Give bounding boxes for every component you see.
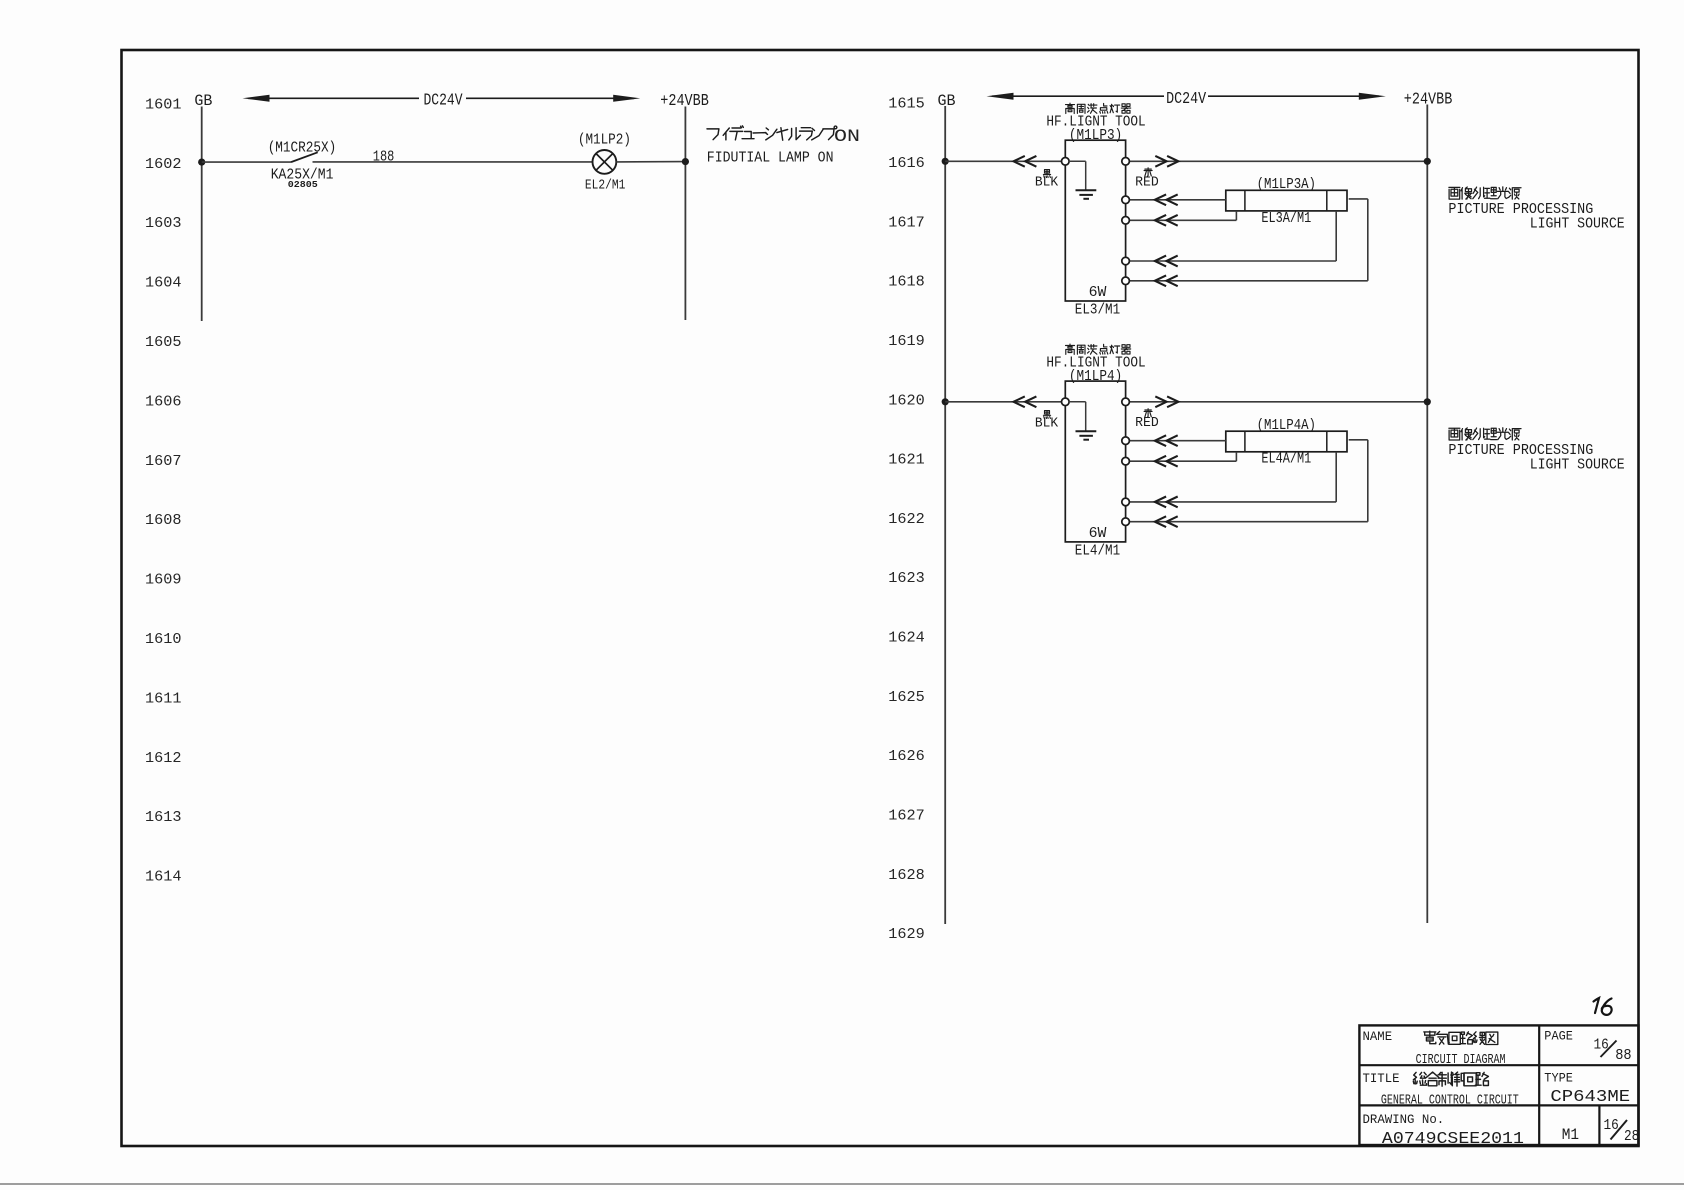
svg-text:BLK: BLK [1035,415,1059,431]
svg-text:1603: 1603 [145,215,182,232]
node 1620 on +24VBB rail [1424,398,1431,405]
svg-text:RED: RED [1135,174,1159,190]
title block frame [1359,1025,1638,1145]
lamp EL2/M1 (M1LP2) indicator [593,150,617,174]
svg-text:1623: 1623 [888,570,925,587]
wire 1602 contact to lamp with wire number 188 [313,161,593,163]
terminal pin 3 (M1LP3) [1122,257,1130,265]
lamp feed wire 1 [1129,440,1226,442]
svg-text:1609: 1609 [145,572,182,589]
lamp feed wire 4 [1129,280,1368,282]
wire 1616 black lead from GB rail to M1LP3 [942,158,949,165]
relay contact KA25X/M1 (M1CR25X) NO contact blade [291,152,318,162]
lamp feed wire 1 [1129,199,1226,201]
svg-text:(M1LP3): (M1LP3) [1069,128,1122,144]
terminal pin 2 (M1LP4) [1122,457,1130,465]
page bottom scan edge [0,1183,1684,1185]
terminal pin red (M1LP3) [1122,158,1130,166]
red lead chevrons [1155,156,1178,167]
svg-text:1608: 1608 [145,512,182,529]
svg-text:(M1LP4): (M1LP4) [1069,369,1122,385]
lamp tube EL4A/M1 (M1LP4A) [1226,431,1347,452]
HF lighting unit heading Japanese 高周波点灯器 (M1LP4) [1066,344,1075,354]
svg-text:NAME: NAME [1363,1030,1393,1044]
svg-text:188: 188 [373,148,395,165]
svg-text:1624: 1624 [888,630,925,647]
terminal pin 3 (M1LP4) [1122,498,1130,506]
terminal pin black (M1LP4) [1062,398,1070,406]
svg-text:1606: 1606 [145,393,182,410]
title Japanese 総合制御回路 [1413,1072,1426,1085]
svg-text:EL4/M1: EL4/M1 [1075,543,1120,560]
svg-text:CIRCUIT DIAGRAM: CIRCUIT DIAGRAM [1416,1052,1506,1068]
wire 1602 from GB rail to contact [202,161,291,163]
svg-text:1621: 1621 [888,452,925,469]
svg-text:EL3/M1: EL3/M1 [1075,302,1120,319]
terminal pin 1 (M1LP4) [1122,437,1130,445]
terminal pin 2 (M1LP3) [1122,217,1130,225]
svg-text:1604: 1604 [145,275,182,292]
power span arrow DC24V (right) [987,89,1386,108]
svg-text:RED: RED [1135,415,1159,431]
name Japanese 電気回路線図 [1424,1031,1436,1044]
black lead chevrons [1014,156,1037,167]
svg-text:TYPE: TYPE [1544,1071,1573,1085]
svg-text:1612: 1612 [145,750,182,767]
svg-text:FIDUTIAL LAMP ON: FIDUTIAL LAMP ON [707,150,834,167]
ground symbol [1076,189,1097,191]
svg-text:1613: 1613 [145,809,182,826]
lamp tube EL3A/M1 (M1LP3A) [1226,190,1347,211]
left rail GB [201,107,203,322]
red lead chevrons [1155,396,1178,407]
lamp feed wire 2 [1129,460,1236,462]
svg-text:1617: 1617 [888,214,925,231]
svg-text:LIGHT SOURCE: LIGHT SOURCE [1530,458,1625,474]
wire 1602 lamp to +24VBB rail [616,161,685,163]
svg-text:1620: 1620 [888,392,925,409]
HF lighting unit box EL4/M1 [1065,381,1125,542]
label black 黒 BLK [1043,170,1050,178]
svg-text:CP643ME: CP643ME [1550,1087,1630,1106]
svg-text:1622: 1622 [888,511,925,528]
svg-text:88: 88 [1615,1048,1631,1064]
svg-text:1605: 1605 [145,334,182,351]
svg-text:1627: 1627 [888,808,925,825]
terminal pin 4 (M1LP4) [1122,518,1130,526]
svg-text:(M1LP4A): (M1LP4A) [1257,418,1316,434]
lamp feed wire 4 [1129,521,1368,523]
svg-text:1611: 1611 [145,690,182,707]
svg-text:LIGHT SOURCE: LIGHT SOURCE [1530,217,1625,233]
lamp feed wire 3 [1129,260,1336,262]
svg-text:DC24V: DC24V [1166,89,1206,108]
lamp feed wire 2 [1129,219,1236,221]
wire 1620 black lead from GB rail to M1LP4 [942,398,949,405]
terminal pin red (M1LP4) [1122,398,1130,406]
right rail +24VBB (left half) [684,107,686,321]
svg-text:(M1CR25X): (M1CR25X) [268,140,337,157]
label black 黒 BLK [1043,411,1050,419]
svg-text:GB: GB [938,92,956,110]
svg-text:1610: 1610 [145,631,182,648]
svg-text:M1: M1 [1562,1126,1579,1144]
svg-text:DC24V: DC24V [424,91,463,110]
svg-text:EL2/M1: EL2/M1 [585,178,626,194]
label red 赤 RED [1144,168,1152,177]
wire red lead M1LP3 to +24VBB rail [1129,160,1427,162]
svg-text:1618: 1618 [888,274,925,291]
power span arrow DC24V (left) [243,91,641,110]
wire red lead M1LP4 to +24VBB rail [1129,401,1427,403]
handwritten page number 16 [1594,998,1612,1015]
svg-text:6W: 6W [1089,525,1107,542]
svg-text:PAGE: PAGE [1544,1029,1573,1043]
right half rail +24VBB [1426,105,1428,924]
node 1616 on +24VBB rail [1424,158,1431,165]
svg-text:6W: 6W [1089,284,1107,301]
svg-text:1601: 1601 [145,96,182,113]
svg-text:(M1LP2): (M1LP2) [578,132,631,149]
svg-text:1616: 1616 [888,155,925,172]
svg-text:1614: 1614 [145,869,182,886]
label red 赤 RED [1144,409,1152,418]
svg-text:EL3A/M1: EL3A/M1 [1261,211,1311,227]
svg-text:1619: 1619 [888,333,925,350]
svg-text:02805: 02805 [288,179,318,190]
svg-text:1626: 1626 [888,748,925,765]
internal ground lead [1068,160,1085,162]
svg-text:1615: 1615 [888,96,925,113]
svg-text:A0749CSEE2011: A0749CSEE2011 [1382,1130,1524,1149]
svg-text:(M1LP3A): (M1LP3A) [1257,177,1316,193]
terminal pin 4 (M1LP3) [1122,277,1130,285]
left column row numbers 1601-1614 [145,96,182,885]
internal ground lead [1068,401,1085,403]
svg-text:GENERAL CONTROL CIRCUIT: GENERAL CONTROL CIRCUIT [1381,1093,1519,1109]
svg-text:TITLE: TITLE [1363,1072,1400,1086]
terminal pin 1 (M1LP3) [1122,196,1130,204]
svg-text:DRAWING No.: DRAWING No. [1363,1112,1445,1127]
node 1602 on GB rail [198,159,205,166]
node 1602 on +24VBB rail [682,158,689,165]
lamp feed wire 3 [1129,501,1336,503]
HF lighting unit box EL3/M1 [1065,140,1125,301]
svg-text:1628: 1628 [888,867,925,884]
svg-text:GB: GB [194,92,212,110]
annotation fiducial lamp ON (Japanese) [707,129,719,140]
svg-text:1602: 1602 [145,156,182,173]
terminal pin black (M1LP3) [1062,158,1070,166]
right column row numbers 1615-1629 [888,96,925,944]
right half rail GB [944,106,946,924]
annotation picture processing light source (Japanese) [1449,428,1460,440]
annotation picture processing light source (Japanese) [1449,187,1460,199]
ground symbol [1076,430,1097,432]
HF lighting unit heading Japanese 高周波点灯器 (M1LP3) [1066,103,1075,113]
svg-text:28: 28 [1624,1129,1639,1145]
svg-text:EL4A/M1: EL4A/M1 [1261,452,1311,468]
svg-text:BLK: BLK [1035,174,1059,190]
black lead chevrons [1014,396,1037,407]
svg-text:1629: 1629 [888,926,925,943]
svg-text:1625: 1625 [888,689,925,706]
svg-text:ON: ON [834,127,860,147]
svg-text:1607: 1607 [145,453,182,470]
